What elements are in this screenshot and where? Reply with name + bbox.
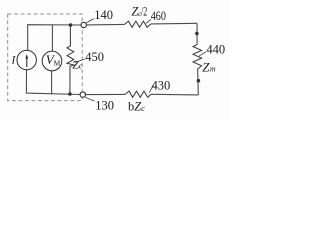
svg-text:m: m bbox=[210, 65, 216, 74]
current source I bbox=[17, 50, 36, 69]
voltmeter VM bbox=[51, 25, 53, 51]
svg-text:130: 130 bbox=[95, 98, 114, 112]
resistor bZc (430) bbox=[125, 91, 151, 97]
svg-text:/2: /2 bbox=[141, 4, 147, 18]
resistor Zm (440) bbox=[193, 45, 202, 72]
resistor Zc/2 (460) bbox=[125, 21, 151, 27]
wire bottom inside box bbox=[26, 70, 80, 95]
svg-text:460: 460 bbox=[151, 9, 166, 23]
node 130 bbox=[80, 92, 85, 97]
svg-text:450: 450 bbox=[85, 50, 104, 64]
pointer to 450 bbox=[74, 59, 85, 62]
svg-text:c: c bbox=[141, 104, 145, 113]
svg-text:440: 440 bbox=[206, 42, 225, 56]
pointer to 140 bbox=[86, 19, 93, 23]
svg-text:c: c bbox=[79, 62, 83, 71]
junction dot: Zm top bbox=[195, 32, 199, 36]
pointer to 460 bbox=[146, 19, 151, 23]
svg-text:430: 430 bbox=[152, 78, 171, 92]
wire right branch lower bbox=[197, 72, 200, 96]
resistor Zc (450) bbox=[67, 25, 74, 94]
junction dot: Zc top bbox=[69, 23, 73, 27]
pointer to 440 bbox=[199, 52, 206, 56]
junction dot: Zc bottom bbox=[68, 92, 72, 96]
svg-text:M: M bbox=[54, 58, 61, 67]
wire top main left bbox=[86, 23, 124, 26]
wire bottom main right bbox=[151, 93, 198, 96]
wire right branch upper bbox=[196, 23, 198, 44]
pointer to 430 bbox=[149, 85, 153, 93]
node 140 bbox=[81, 22, 86, 27]
junction dot: Zm bottom bbox=[197, 79, 201, 83]
wire top inside box bbox=[28, 25, 81, 51]
pointer to 130 bbox=[85, 97, 94, 101]
svg-text:140: 140 bbox=[94, 8, 113, 22]
wire bottom main left bbox=[86, 93, 126, 95]
wire top main right bbox=[151, 22, 197, 25]
dashed network box bbox=[8, 14, 83, 101]
